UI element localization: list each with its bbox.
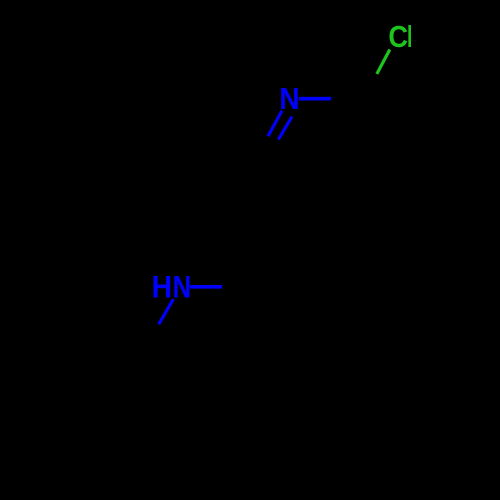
svg-text:H: H <box>152 270 172 305</box>
double bond N=C6 inner line (blue half) <box>278 117 292 140</box>
svg-text:N: N <box>173 270 192 305</box>
bond N-CH (blue half, horizontal) <box>190 285 222 289</box>
svg-text:l: l <box>407 21 412 54</box>
bond N-C2 (blue half) <box>299 97 331 101</box>
double bond N=C6 outer line (blue half) <box>268 111 282 137</box>
bond N-cyclohexyl (blue half, diagonal) <box>159 299 174 324</box>
svg-text:C: C <box>388 21 408 55</box>
bond C2-Cl (green half) <box>377 50 390 75</box>
